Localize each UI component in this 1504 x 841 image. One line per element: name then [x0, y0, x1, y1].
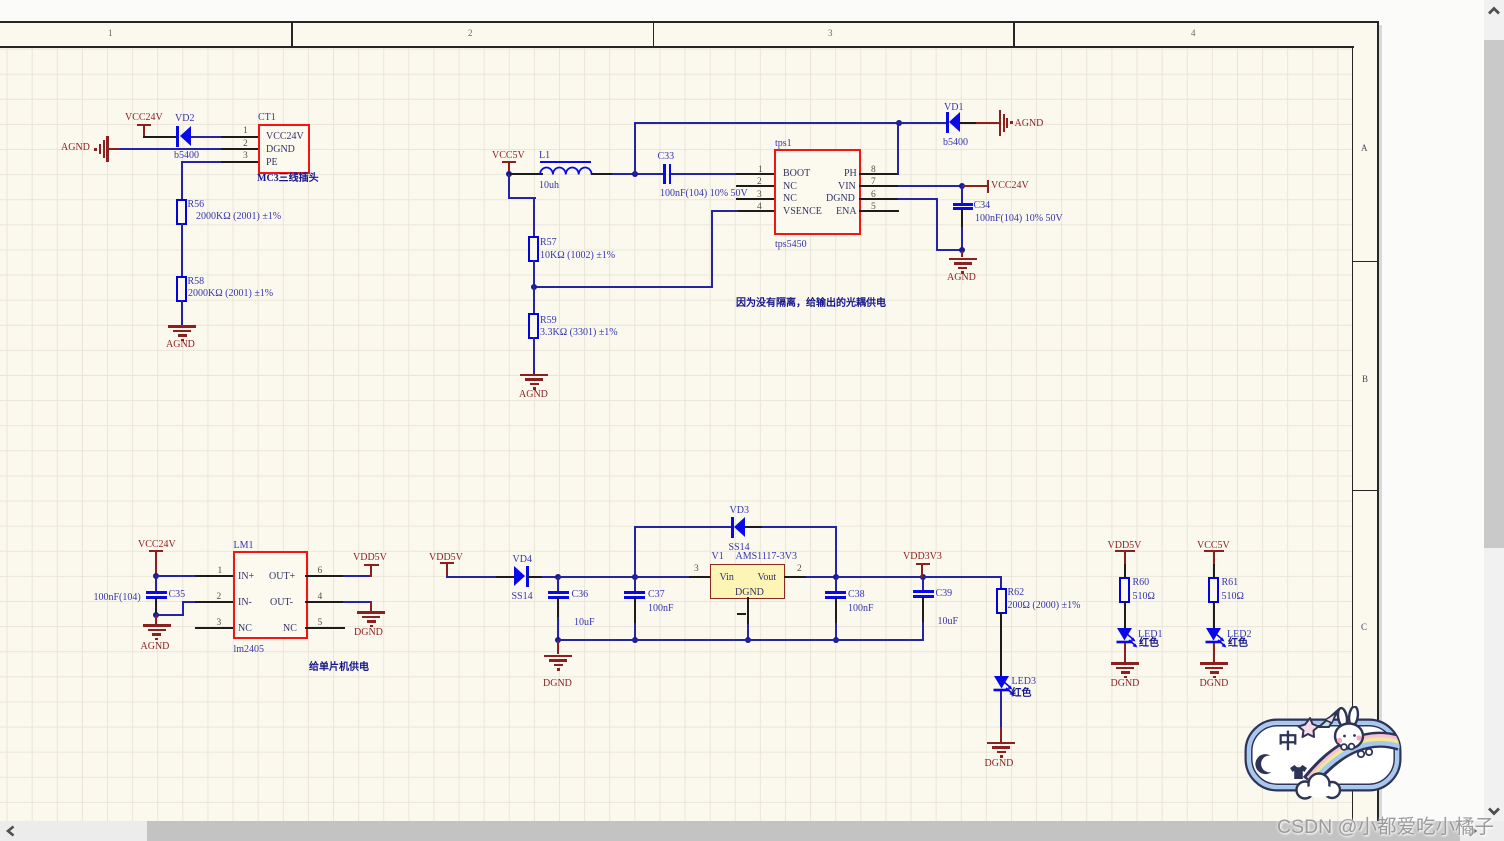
capacitor C39 lower stem 2 — [922, 622, 924, 641]
capacitor C34 bottom plate — [953, 207, 973, 210]
value C39 10uF — [938, 616, 959, 627]
pin stub LM1 pin1 — [195, 575, 234, 577]
capacitor C37 stem — [634, 577, 636, 592]
ground stub (C36) — [557, 640, 559, 654]
node junction above pin8 — [896, 120, 902, 126]
V1 pin number 3 — [694, 564, 699, 574]
resistor R59 body — [528, 313, 539, 339]
power bar VCC24V (LM1) — [149, 550, 163, 552]
ground DGND (LED2) dot — [1213, 676, 1216, 679]
designator C33 — [658, 151, 675, 162]
pin stub LM1 pin4 — [305, 601, 345, 603]
power stem VCC24V — [143, 124, 145, 137]
wire up to VD3 bypass — [634, 526, 636, 577]
comment MC3 connector — [257, 173, 319, 185]
capacitor C34 top plate — [953, 203, 973, 206]
pin stub tps1 pin6 — [859, 198, 899, 200]
ground lead DGND (LED3) — [1000, 727, 1002, 742]
LM1 pin number 4 — [318, 592, 323, 602]
resistor R57 body — [528, 236, 539, 262]
ground DGND (C36) label — [543, 678, 572, 689]
node junction pin7/C34 — [959, 183, 965, 189]
pin lead into VD4 — [496, 576, 514, 578]
value C36 10uF — [574, 617, 595, 628]
right zone divider A|B — [1352, 261, 1377, 263]
node junction at C34 ground — [959, 247, 965, 253]
diode VD2 cathode bar — [176, 126, 179, 147]
wire VCC5V jog — [508, 197, 536, 199]
net label VDD5V (LED1) — [1108, 540, 1142, 551]
V1 pin name Vin — [720, 572, 734, 583]
power stem VDD5V (LM1) — [370, 565, 372, 577]
AGND label (right port) — [1015, 118, 1044, 129]
wire junction down to C35 — [155, 577, 157, 592]
wire VD3 left run — [634, 526, 732, 528]
node junction feedback — [531, 284, 537, 290]
zone letter A — [1361, 144, 1368, 153]
ground DGND (LED2) bar1 — [1200, 662, 1228, 665]
net label VCC24V (top-left) — [125, 112, 163, 123]
power bar VCC5V (LED2) — [1204, 550, 1224, 552]
ground AGND (C35) bar1 — [143, 624, 171, 627]
wire down from pin4 — [711, 210, 713, 288]
wire C39 node to R62 corner — [923, 576, 1002, 578]
wire down to R56 — [181, 161, 183, 200]
AGND port dot — [94, 148, 97, 151]
net label VCC24V (LM1) — [138, 539, 176, 550]
ground DGND (LED1) dot — [1124, 676, 1127, 679]
wire junction to pin2 jog — [155, 614, 183, 616]
resistor R60 body — [1119, 577, 1130, 603]
connector CT1 box — [258, 124, 310, 174]
value R61 510 ohm — [1222, 591, 1244, 602]
tps1 pin name NC (pin3) — [783, 193, 797, 204]
LM1 pin number 2 — [217, 592, 222, 602]
V1 pin name Vout — [758, 572, 777, 583]
ground DGND (LED3) dot — [1000, 755, 1003, 758]
capacitor C33 right plate — [669, 164, 672, 184]
designator C37 — [648, 589, 665, 600]
ground DGND (LM1) dot — [370, 625, 373, 628]
capacitor C39 stem — [922, 577, 924, 591]
LM1 pin number 6 — [318, 566, 323, 576]
ground AGND (C34) bar2 — [954, 262, 972, 265]
ground AGND (C35) bar3 — [152, 633, 161, 636]
capacitor C39 bottom plate — [913, 595, 934, 598]
ground DGND (LED1) bar1 — [1111, 662, 1139, 665]
value SS14 (VD4) — [512, 591, 533, 602]
designator R58 — [188, 276, 205, 287]
wire VCC5V drop — [508, 174, 510, 199]
value LED1 red — [1139, 638, 1159, 650]
wire R62 to LED3 — [1000, 612, 1002, 677]
node junction C36 — [555, 574, 561, 580]
resistor R56 body — [176, 199, 187, 225]
wire L1 to junction — [591, 173, 613, 175]
wire pin7 to VCC24V — [898, 185, 963, 187]
zone number 1 — [108, 29, 113, 38]
designator LED2 — [1227, 629, 1251, 640]
wire VD4 to C36 node — [528, 576, 543, 578]
ground DGND (C36) bar1 — [544, 655, 572, 658]
ground AGND (C35) label — [141, 641, 170, 652]
capacitor C39 top plate — [913, 590, 934, 593]
ground DGND (LED3) bar3 — [997, 751, 1006, 754]
wire R62 corner down — [1000, 576, 1002, 589]
wire up from junction — [634, 122, 636, 175]
net label VCC24V (right) — [991, 180, 1029, 191]
value C38 100nF — [848, 603, 874, 614]
power bar VDD5V (LDO) — [440, 562, 454, 564]
power stem VCC24V (LM1) — [155, 550, 157, 577]
value SS14 (VD3) — [729, 542, 750, 553]
LM1 pin number 1 — [218, 566, 223, 576]
value C37 100nF — [648, 603, 674, 614]
power bar VDD5V (LM1) — [364, 564, 379, 566]
scrollbar corner — [1484, 821, 1504, 841]
capacitor C38 lower stem — [835, 598, 837, 624]
value LED2 red — [1228, 638, 1248, 650]
wire C37 node to pin3 — [635, 576, 691, 578]
diode VD2 triangle — [180, 126, 191, 146]
ground AGND (C35) dot — [155, 638, 158, 641]
wire R60 to LED1 — [1124, 601, 1126, 628]
wire pin6 right — [898, 198, 938, 200]
value lm2405 — [234, 644, 265, 655]
top zone divider 3|4 — [1013, 22, 1015, 46]
ground stub — [961, 251, 963, 257]
value R56 — [196, 211, 281, 222]
top zone band (plain, masks grid) — [0, 21, 1378, 46]
ground AGND (block1) bar2 — [173, 330, 191, 333]
zone letter C — [1361, 623, 1367, 632]
right zone band (plain, masks grid) — [1352, 46, 1378, 821]
designator V1 — [712, 551, 724, 562]
designator R60 — [1133, 577, 1150, 588]
node junction C37 — [632, 574, 638, 580]
power stem VDD3V3 — [921, 563, 923, 578]
V1 pin name DGND — [735, 587, 764, 598]
ground DGND (LM1) bar3 — [367, 620, 376, 623]
wire VD3 right run — [762, 526, 837, 528]
wire C34 to ground junction — [961, 227, 963, 251]
ground AGND (C34) bar1 — [949, 258, 977, 261]
wire VD3 down to Vout — [835, 526, 837, 577]
designator C39 — [936, 588, 953, 599]
LM1 pin number 5 — [318, 618, 323, 628]
value C34 — [975, 213, 1063, 224]
designator C38 — [848, 589, 865, 600]
pin stub tps1 pin4 — [736, 210, 774, 212]
node junction C36/bus — [555, 637, 561, 643]
wire feedback horizontal — [533, 286, 713, 288]
wire jog down to R57 — [533, 197, 535, 237]
ground AGND (R59) bar1 — [520, 374, 548, 377]
capacitor C37 lower stem 2 — [634, 623, 636, 640]
wire C38 node to C39 node — [836, 576, 925, 578]
pin stub CT1 pin2 — [221, 148, 258, 150]
wire VCC5V to L1 — [508, 173, 543, 175]
wire C35 down — [155, 598, 157, 616]
zone number 4 — [1191, 29, 1196, 38]
V1 pin number 2 — [797, 564, 802, 574]
capacitor C36 top plate — [548, 591, 569, 594]
designator L1 — [539, 150, 550, 161]
node junction C39/VDD3V3 — [920, 574, 926, 580]
wire VD1 to AGND port — [960, 122, 977, 124]
resistor R58 body — [176, 276, 187, 302]
ground AGND (C34) label — [947, 272, 976, 283]
scrollbar down arrow — [1485, 803, 1503, 819]
wire junction to VD1 — [899, 122, 947, 124]
horizontal scrollbar thumb — [147, 821, 1460, 841]
wire jog up — [182, 601, 184, 616]
wire junction down to C34 — [961, 185, 963, 203]
top zone divider 2|3 — [653, 22, 655, 46]
sheet border frame: right outer line — [1377, 21, 1379, 821]
value R59 — [540, 327, 618, 338]
node junction C38 — [833, 574, 839, 580]
ground AGND (C34) bar3 — [958, 267, 967, 270]
ground DGND (C36) bar3 — [554, 664, 563, 667]
ground AGND (R59) label — [519, 389, 548, 400]
value C35 — [94, 592, 141, 603]
scrollbar up arrow — [1485, 3, 1503, 19]
value R60 510 ohm — [1133, 591, 1155, 602]
value AMS1117-3V3 — [736, 551, 797, 562]
wire to LM1 pin1 — [155, 575, 197, 577]
wire pin4 to DGND — [343, 601, 371, 603]
pin stub V1 pin2 — [784, 576, 807, 578]
pin stub tps1 pin7 — [859, 185, 899, 187]
power stem VCC5V (LED2) — [1213, 550, 1215, 566]
CT1 pin name PE — [266, 157, 278, 168]
ground stub (C35) — [155, 616, 157, 624]
value b5400 (VD1) — [943, 137, 968, 148]
designator tps1 — [775, 138, 792, 149]
value tps5450 — [775, 239, 807, 250]
AGND port bar tall — [106, 136, 109, 162]
capacitor C36 lower stem 2 — [557, 617, 559, 640]
wire C34 down — [961, 210, 963, 229]
CT1 pin number 3 — [243, 151, 248, 161]
wire R61 to LED2 — [1213, 601, 1215, 628]
node junction C35 ground — [153, 612, 159, 618]
pin stub LM1 pin5 — [305, 627, 345, 629]
vertical scrollbar thumb — [1484, 40, 1504, 548]
value R62 — [1008, 600, 1081, 611]
tps1 pin name VSENCE — [783, 206, 822, 217]
designator VD3 — [730, 505, 749, 516]
tps1 pin number 4 — [757, 202, 762, 212]
tps1 pin name BOOT — [783, 168, 810, 179]
ground DGND (LED1) bar2 — [1116, 667, 1134, 670]
capacitor C38 stem — [835, 577, 837, 592]
pin stub tps1 pin2 — [736, 185, 774, 187]
designator C34 — [974, 200, 991, 211]
wire to C33 junction — [612, 173, 664, 175]
AGND port (right) dot — [1010, 121, 1013, 124]
V1 pin number 1 dash — [737, 613, 746, 616]
AGND port (right) bar mid — [1003, 114, 1005, 132]
ground lead DGND (LM1) — [370, 601, 372, 611]
diode VD4 triangle — [514, 566, 525, 586]
capacitor C36 stem — [557, 577, 559, 592]
sheet border frame: top inner line — [0, 46, 1354, 48]
pin stub tps1 pin5 — [859, 210, 899, 212]
scrollbar left arrow — [3, 823, 19, 839]
diode VD4 cathode bar — [526, 566, 529, 587]
net label VDD5V (LM1) — [353, 552, 387, 563]
tps1 pin name PH — [844, 168, 857, 179]
tps1 pin number 8 — [871, 165, 876, 175]
wire pin8 up to top run — [897, 122, 899, 175]
pin stub tps1 pin3 — [736, 198, 774, 200]
zone number 3 — [828, 29, 833, 38]
wire CT1 pin3 to R56 — [181, 161, 223, 163]
lead to VCC24V bar — [962, 185, 988, 187]
LM1 pin name IN+ — [238, 571, 254, 582]
ground DGND (LED3) bar1 — [987, 742, 1015, 745]
AGND port lead — [108, 148, 121, 150]
capacitor C38 lower stem 2 — [835, 623, 837, 640]
power bar VDD5V (LED1) — [1115, 550, 1135, 552]
tps1 pin number 1 — [758, 165, 763, 175]
ground DGND (LED3) bar2 — [992, 746, 1010, 749]
designator LED3 — [1012, 676, 1036, 687]
AGND port bar mid — [103, 140, 105, 158]
LM1 pin number 3 — [217, 618, 222, 628]
CT1 pin name VCC24V — [266, 131, 304, 142]
designator C36 — [572, 589, 589, 600]
decorative sticker (rabbit rainbow) — [1243, 706, 1403, 802]
wire pin6 to VDD5V — [343, 575, 371, 577]
wire AGND to CT1 pin2 — [120, 148, 223, 150]
designator LED1 — [1138, 629, 1162, 640]
annotation: MCU power comment — [309, 662, 369, 674]
pin stub tps1 pin8 — [859, 173, 899, 175]
inductor L1 arcs — [539, 164, 594, 176]
zone number 2 — [468, 29, 473, 38]
tps1 pin number 6 — [871, 190, 876, 200]
pin stub tps1 pin1 — [736, 173, 774, 175]
IC tps1 box — [774, 149, 861, 235]
capacitor C37 bottom plate — [624, 596, 645, 599]
power bar VCC5V — [502, 161, 516, 163]
zone letter B — [1362, 375, 1368, 384]
right zone divider B|C — [1352, 490, 1377, 492]
wire top horizontal run to VD1 — [634, 122, 899, 124]
designator VD2 — [175, 113, 194, 124]
ground AGND (block1) dot — [181, 339, 184, 342]
horizontal scrollbar track — [0, 821, 1504, 841]
ground AGND (R59) dot — [533, 387, 536, 390]
node junction VCC24V/C35 — [153, 573, 159, 579]
net label AGND (left port) — [61, 142, 90, 153]
pin stub LM1 pin3 — [195, 627, 234, 629]
ground DGND (LM1) label — [354, 627, 383, 638]
net label VDD3V3 — [903, 551, 942, 562]
designator R62 — [1008, 587, 1025, 598]
capacitor C37 lower stem — [634, 598, 636, 624]
wire LED1 to DGND — [1124, 643, 1126, 663]
LM1 pin name OUT- — [270, 597, 293, 608]
wire pin2 to C38 node — [806, 576, 837, 578]
diode VD3 anode bar — [731, 517, 734, 538]
capacitor C38 top plate — [825, 591, 846, 594]
power stem VDD5V (LED1) — [1124, 550, 1126, 566]
resistor R61 body — [1208, 577, 1219, 603]
ground DGND (LED3) label — [985, 758, 1014, 769]
ground AGND (R59) bar3 — [530, 383, 539, 386]
pin stub LM1 pin2 — [195, 601, 234, 603]
pin stub V1 pin3 — [689, 576, 711, 578]
ground AGND (R59) bar2 — [525, 378, 543, 381]
wire to C36 node — [542, 576, 560, 578]
wire C36 node to C37 node — [558, 576, 636, 578]
CT1 pin name DGND — [266, 144, 295, 155]
ground DGND (LED2) bar2 — [1205, 667, 1223, 670]
ground AGND (block1) bar3 — [178, 334, 187, 337]
tps1 pin name VIN — [838, 181, 856, 192]
LED LED2 — [1205, 627, 1237, 651]
wire VD3 right lead — [745, 526, 763, 528]
ground DGND (LED1) bar3 — [1121, 671, 1130, 674]
wire VCC5V to R61 — [1213, 564, 1215, 577]
designator R59 — [540, 315, 557, 326]
power bar VCC24V — [137, 124, 151, 126]
ground AGND (C34) dot — [961, 271, 964, 274]
power bar VDD3V3 — [916, 563, 930, 565]
capacitor C35 top plate — [146, 591, 167, 594]
value LED3 red — [1012, 688, 1032, 700]
tps1 pin number 2 — [757, 177, 762, 187]
wire VCC24V to VD2 — [143, 136, 177, 138]
designator CT1 — [258, 112, 276, 123]
LED LED3 — [993, 675, 1025, 699]
capacitor C37 top plate — [624, 591, 645, 594]
ground DGND (LED2) bar3 — [1210, 671, 1219, 674]
pin stub LM1 pin6 — [305, 575, 345, 577]
IC LM1 box — [233, 551, 308, 639]
LM1 pin name NC (pin3) — [238, 623, 252, 634]
wire jog to pin2 — [182, 601, 197, 603]
node junction V1gnd/bus — [745, 637, 751, 643]
designator R56 — [188, 199, 205, 210]
designator R61 — [1222, 577, 1239, 588]
wire LED2 to DGND — [1213, 643, 1215, 663]
tps1 pin number 5 — [871, 202, 876, 212]
value b5400 (VD2) — [174, 150, 199, 161]
CT1 pin number 1 — [243, 126, 248, 136]
value R58 — [188, 288, 273, 299]
ground DGND (LED1) label — [1111, 678, 1140, 689]
ground AGND (block1) label — [166, 339, 195, 350]
pin stub CT1 pin1 — [221, 136, 258, 138]
svg-text:中: 中 — [1278, 729, 1298, 753]
tps1 pin number 3 — [757, 190, 762, 200]
wire R56 to R58 — [181, 223, 183, 276]
tps1 pin name DGND — [826, 193, 855, 204]
ground DGND (C36) bar2 — [549, 659, 567, 662]
sheet drop shadow — [1379, 25, 1382, 821]
lead to AGND port — [976, 122, 999, 124]
AGND port (right) bar small — [1006, 118, 1008, 128]
capacitor C36 bottom plate — [548, 596, 569, 599]
designator LM1 — [234, 540, 254, 551]
wire VD2 to CT1 pin1 — [191, 136, 224, 138]
net label VCC5V — [492, 150, 525, 161]
